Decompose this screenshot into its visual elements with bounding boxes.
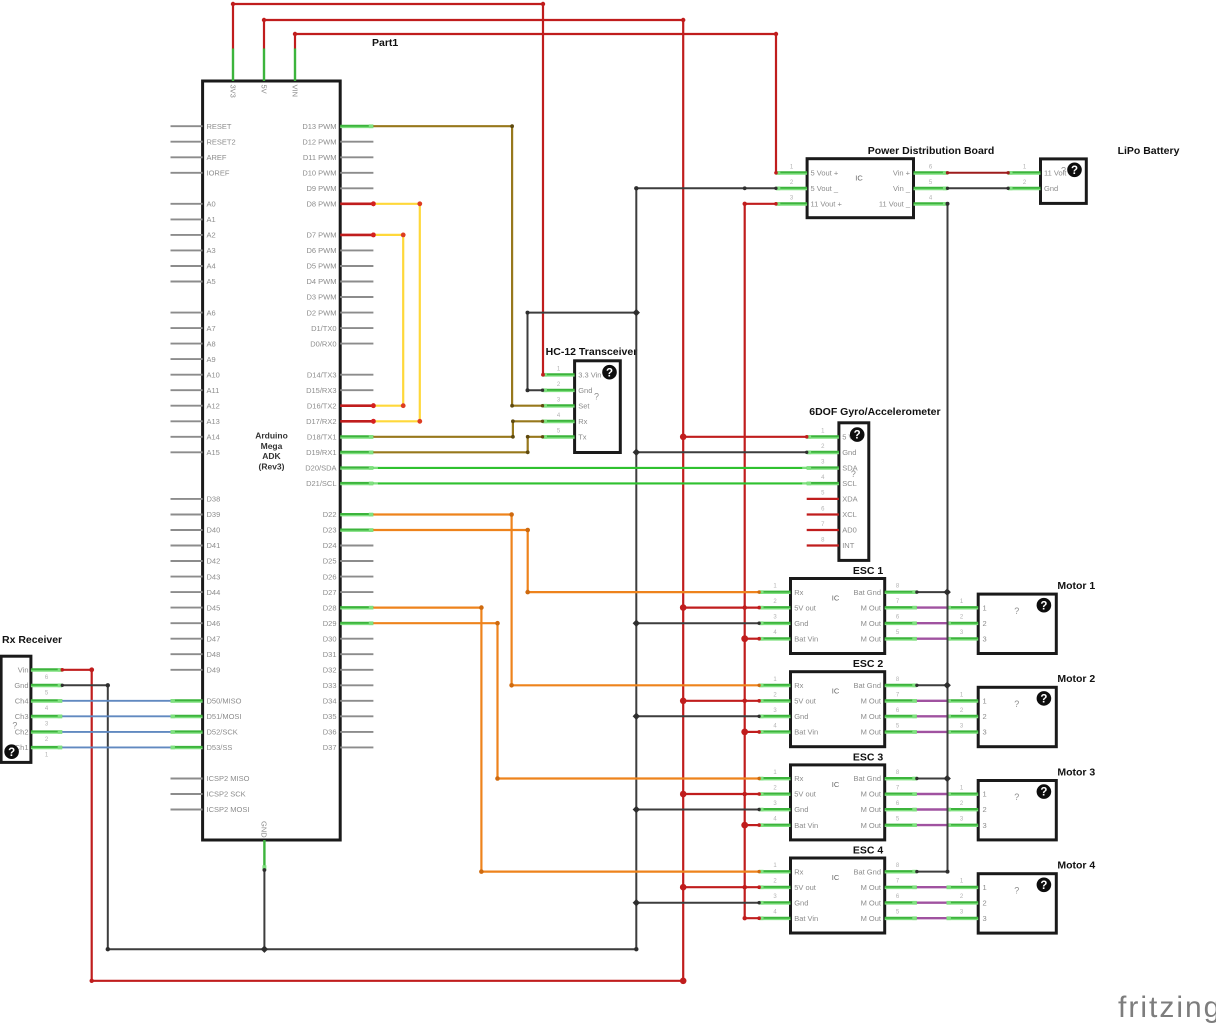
svg-text:5V out: 5V out bbox=[794, 790, 817, 799]
svg-text:D36: D36 bbox=[323, 728, 337, 737]
svg-text:D45: D45 bbox=[207, 603, 221, 612]
svg-text:D44: D44 bbox=[207, 588, 221, 597]
svg-text:A12: A12 bbox=[207, 401, 220, 410]
junction: ground net junction dots bbox=[61, 186, 809, 953]
svg-text:?: ? bbox=[594, 391, 599, 401]
svg-text:?: ? bbox=[1061, 166, 1066, 176]
svg-text:D24: D24 bbox=[323, 541, 337, 550]
svg-text:ESC 4: ESC 4 bbox=[853, 845, 884, 857]
wire: PDB Vin- to LiPo Gnd (black) bbox=[946, 187, 1010, 190]
svg-text:Bat Vin: Bat Vin bbox=[794, 634, 818, 643]
svg-text:?: ? bbox=[1040, 600, 1047, 612]
svg-text:IC: IC bbox=[832, 780, 840, 789]
U4 unknown-part icon bbox=[850, 427, 865, 442]
svg-text:?: ? bbox=[1014, 885, 1019, 895]
svg-text:M Out: M Out bbox=[861, 603, 882, 612]
svg-text:D27: D27 bbox=[323, 588, 337, 597]
svg-text:IC: IC bbox=[832, 593, 840, 602]
svg-text:D42: D42 bbox=[207, 557, 221, 566]
svg-text:ESC 2: ESC 2 bbox=[853, 658, 884, 670]
svg-text:D49: D49 bbox=[207, 666, 221, 675]
svg-text:ICSP2 MISO: ICSP2 MISO bbox=[207, 774, 250, 783]
wire: D7 to D16/TX2 (yellow) bbox=[371, 233, 406, 409]
BT1 unknown-part icon bbox=[1067, 163, 1082, 178]
svg-text:5V out: 5V out bbox=[794, 603, 817, 612]
svg-text:M Out: M Out bbox=[861, 914, 882, 923]
svg-text:A7: A7 bbox=[207, 324, 216, 333]
wire: PDB 11Vout+ to ESC Bat Vin rail (red) bbox=[743, 202, 778, 921]
wire: D13 to HC-12 Set (dark yellow) bbox=[373, 124, 544, 407]
svg-text:RESET: RESET bbox=[207, 122, 232, 131]
svg-text:Bat Vin: Bat Vin bbox=[794, 914, 818, 923]
svg-text:Motor 1: Motor 1 bbox=[1057, 580, 1095, 592]
svg-text:IC: IC bbox=[832, 687, 840, 696]
svg-text:D47: D47 bbox=[207, 634, 221, 643]
svg-text:?: ? bbox=[851, 469, 856, 479]
svg-text:D34: D34 bbox=[323, 697, 337, 706]
svg-text:1: 1 bbox=[983, 790, 987, 799]
svg-text:?: ? bbox=[8, 747, 15, 759]
M4: Motor 4 body bbox=[947, 860, 1096, 934]
svg-text:Rx: Rx bbox=[794, 774, 803, 783]
svg-text:Bat Vin: Bat Vin bbox=[794, 728, 818, 737]
U1 top power pins 3V3 5V VIN (green legs) bbox=[228, 49, 299, 98]
svg-text:D9 PWM: D9 PWM bbox=[307, 184, 337, 193]
svg-text:Gnd: Gnd bbox=[842, 448, 856, 457]
svg-text:A9: A9 bbox=[207, 355, 216, 364]
svg-text:A10: A10 bbox=[207, 370, 220, 379]
svg-text:ICSP2 SCK: ICSP2 SCK bbox=[207, 790, 246, 799]
svg-text:D0/RX0: D0/RX0 bbox=[310, 339, 336, 348]
svg-text:D6 PWM: D6 PWM bbox=[307, 246, 337, 255]
svg-text:D2 PWM: D2 PWM bbox=[307, 308, 337, 317]
svg-text:A3: A3 bbox=[207, 246, 216, 255]
svg-text:11 Vout _: 11 Vout _ bbox=[879, 200, 911, 209]
svg-text:Set: Set bbox=[578, 401, 590, 410]
U1 right pin stubs and labels (D13..D37) bbox=[302, 122, 375, 752]
svg-text:Power Distribution Board: Power Distribution Board bbox=[868, 145, 995, 157]
svg-text:M Out: M Out bbox=[861, 805, 882, 814]
svg-text:D12 PWM: D12 PWM bbox=[302, 137, 336, 146]
svg-text:IOREF: IOREF bbox=[207, 169, 230, 178]
svg-text:ESC 3: ESC 3 bbox=[853, 751, 884, 763]
svg-text:3: 3 bbox=[983, 821, 987, 830]
svg-text:Arduino: Arduino bbox=[255, 431, 288, 441]
svg-text:D5 PWM: D5 PWM bbox=[307, 262, 337, 271]
M4 unknown-part icon bbox=[1037, 878, 1052, 893]
svg-text:D28: D28 bbox=[323, 603, 337, 612]
wire: PDB 11Vout- to ESC Bat Gnd rail (dark grey) bbox=[917, 202, 950, 874]
svg-text:M Out: M Out bbox=[861, 790, 882, 799]
svg-text:ESC 1: ESC 1 bbox=[853, 565, 884, 577]
svg-text:?: ? bbox=[1014, 792, 1019, 802]
svg-text:A5: A5 bbox=[207, 277, 216, 286]
svg-text:2: 2 bbox=[983, 805, 987, 814]
svg-text:XCL: XCL bbox=[842, 510, 857, 519]
svg-text:AREF: AREF bbox=[207, 153, 227, 162]
svg-text:D53/SS: D53/SS bbox=[207, 743, 233, 752]
svg-text:Gnd: Gnd bbox=[794, 898, 808, 907]
svg-text:?: ? bbox=[854, 430, 861, 442]
svg-text:D51/MOSI: D51/MOSI bbox=[207, 712, 242, 721]
svg-text:2: 2 bbox=[983, 619, 987, 628]
svg-text:HC-12 Transceiver: HC-12 Transceiver bbox=[546, 346, 638, 358]
wire: D8 to D17/RX2 (yellow) bbox=[371, 201, 422, 423]
IC U7: ESC 3 body bbox=[759, 751, 917, 840]
svg-text:M Out: M Out bbox=[861, 898, 882, 907]
svg-text:D25: D25 bbox=[323, 557, 337, 566]
svg-text:D22: D22 bbox=[323, 510, 337, 519]
svg-text:Vin +: Vin + bbox=[893, 169, 911, 178]
wire: D21/SCL to 6DOF SCL (green) bbox=[373, 482, 806, 484]
svg-text:M Out: M Out bbox=[861, 728, 882, 737]
svg-text:5V: 5V bbox=[259, 85, 268, 94]
svg-text:M Out: M Out bbox=[861, 712, 882, 721]
svg-text:A6: A6 bbox=[207, 308, 216, 317]
svg-text:1: 1 bbox=[983, 603, 987, 612]
svg-text:A2: A2 bbox=[207, 231, 216, 240]
svg-text:D48: D48 bbox=[207, 650, 221, 659]
svg-text:3.3 Vin: 3.3 Vin bbox=[578, 370, 601, 379]
svg-text:D31: D31 bbox=[323, 650, 337, 659]
M1: Motor 1 body bbox=[947, 580, 1096, 654]
svg-text:M Out: M Out bbox=[861, 821, 882, 830]
svg-text:?: ? bbox=[12, 721, 17, 731]
M3 unknown-part icon bbox=[1037, 784, 1052, 799]
svg-text:D29: D29 bbox=[323, 619, 337, 628]
svg-text:?: ? bbox=[1040, 880, 1047, 892]
svg-text:GND: GND bbox=[260, 821, 269, 838]
U1 left pin stubs and labels (RESET..ICSP2 MOSI) bbox=[171, 122, 250, 814]
svg-text:?: ? bbox=[1014, 606, 1019, 616]
svg-text:Motor 2: Motor 2 bbox=[1057, 673, 1095, 685]
svg-text:D52/SCK: D52/SCK bbox=[207, 728, 238, 737]
svg-text:D30: D30 bbox=[323, 634, 337, 643]
svg-text:Gnd: Gnd bbox=[578, 386, 592, 395]
svg-text:Gnd: Gnd bbox=[1044, 184, 1058, 193]
svg-text:D23: D23 bbox=[323, 526, 337, 535]
svg-text:Bat Gnd: Bat Gnd bbox=[853, 588, 881, 597]
svg-text:D17/RX2: D17/RX2 bbox=[306, 417, 336, 426]
svg-text:D33: D33 bbox=[323, 681, 337, 690]
wire: Rx receiver Ch4-Ch1 to D50-D53 (blue) bbox=[62, 701, 170, 748]
U9 unknown-part icon bbox=[4, 744, 19, 759]
svg-text:Vin _: Vin _ bbox=[893, 184, 911, 193]
svg-text:A8: A8 bbox=[207, 339, 216, 348]
svg-text:D50/MISO: D50/MISO bbox=[207, 697, 242, 706]
svg-text:Gnd: Gnd bbox=[794, 712, 808, 721]
svg-text:Rx: Rx bbox=[794, 588, 803, 597]
wire: D20/SDA to 6DOF SDA (green) bbox=[373, 467, 806, 469]
svg-text:D1/TX0: D1/TX0 bbox=[311, 324, 336, 333]
svg-text:2: 2 bbox=[983, 898, 987, 907]
svg-text:IC: IC bbox=[832, 873, 840, 882]
svg-text:D26: D26 bbox=[323, 572, 337, 581]
wire: PDB Vin+ to LiPo 11Volt (dark red) bbox=[946, 171, 1010, 174]
svg-text:A14: A14 bbox=[207, 433, 220, 442]
svg-text:3: 3 bbox=[983, 914, 987, 923]
svg-text:Vin: Vin bbox=[18, 666, 29, 675]
svg-text:RESET2: RESET2 bbox=[207, 137, 236, 146]
junction: 11V rail junction dots bbox=[741, 635, 761, 920]
svg-text:M Out: M Out bbox=[861, 619, 882, 628]
svg-text:SCL: SCL bbox=[842, 479, 857, 488]
M2: Motor 2 body bbox=[947, 673, 1096, 747]
svg-text:5 Vout +: 5 Vout + bbox=[811, 169, 839, 178]
svg-text:M Out: M Out bbox=[861, 634, 882, 643]
svg-text:D19/RX1: D19/RX1 bbox=[306, 448, 336, 457]
svg-text:Gnd: Gnd bbox=[794, 805, 808, 814]
svg-text:Bat Vin: Bat Vin bbox=[794, 821, 818, 830]
svg-text:XDA: XDA bbox=[842, 495, 857, 504]
svg-text:D32: D32 bbox=[323, 666, 337, 675]
svg-text:Bat Gnd: Bat Gnd bbox=[853, 681, 881, 690]
svg-text:ICSP2 MOSI: ICSP2 MOSI bbox=[207, 805, 250, 814]
svg-text:D43: D43 bbox=[207, 572, 221, 581]
svg-text:A11: A11 bbox=[207, 386, 220, 395]
wire: ESC M Out to Motor pins (purple) bbox=[917, 608, 947, 919]
svg-text:A15: A15 bbox=[207, 448, 220, 457]
svg-text:3V3: 3V3 bbox=[228, 85, 237, 98]
svg-text:(Rev3): (Rev3) bbox=[259, 462, 285, 472]
svg-text:D21/SCL: D21/SCL bbox=[306, 479, 336, 488]
M1 unknown-part icon bbox=[1037, 598, 1052, 613]
svg-text:D39: D39 bbox=[207, 510, 221, 519]
svg-text:A1: A1 bbox=[207, 215, 216, 224]
svg-text:5V out: 5V out bbox=[794, 697, 817, 706]
svg-text:D41: D41 bbox=[207, 541, 221, 550]
svg-text:D35: D35 bbox=[323, 712, 337, 721]
U2 unknown-part icon bbox=[602, 365, 617, 380]
svg-text:6DOF Gyro/Accelerometer: 6DOF Gyro/Accelerometer bbox=[809, 406, 940, 418]
wire: D22 to ESC2 Rx (orange) bbox=[373, 512, 760, 687]
M3: Motor 3 body bbox=[947, 766, 1096, 840]
svg-text:D16/TX2: D16/TX2 bbox=[307, 401, 337, 410]
svg-text:D46: D46 bbox=[207, 619, 221, 628]
M2 unknown-part icon bbox=[1037, 691, 1052, 706]
svg-text:fritzing: fritzing bbox=[1118, 991, 1216, 1024]
wire: HC-12 Tx to D19/RX1 (dark yellow) bbox=[373, 435, 544, 454]
wire: PDB 5Vout+ to Arduino VIN (red) bbox=[293, 32, 778, 175]
svg-text:?: ? bbox=[1014, 699, 1019, 709]
svg-text:Rx: Rx bbox=[794, 867, 803, 876]
svg-text:D10 PWM: D10 PWM bbox=[302, 169, 336, 178]
svg-text:Mega: Mega bbox=[261, 441, 283, 451]
svg-text:A0: A0 bbox=[207, 200, 216, 209]
svg-text:2: 2 bbox=[983, 712, 987, 721]
IC U2: HC-12 Transceiver body bbox=[543, 346, 638, 453]
svg-text:M Out: M Out bbox=[861, 883, 882, 892]
svg-text:Rx: Rx bbox=[794, 681, 803, 690]
svg-text:D4 PWM: D4 PWM bbox=[307, 277, 337, 286]
svg-text:LiPo Battery: LiPo Battery bbox=[1118, 145, 1180, 157]
wire: 5V rail net (red) - Arduino 5V, 6DOF 5Vin, ESC 5V outs, Rx receiver Vin bbox=[61, 18, 807, 983]
svg-text:Bat Gnd: Bat Gnd bbox=[853, 867, 881, 876]
svg-text:Tx: Tx bbox=[578, 433, 587, 442]
svg-text:D8 PWM: D8 PWM bbox=[307, 200, 337, 209]
svg-text:D20/SDA: D20/SDA bbox=[305, 464, 336, 473]
wire: ground net (black) - PDB 5Vout-, HC-12 Gnd, 6DOF Gnd, ESC Gnds, Arduino GND, Rx receiver Gnd bbox=[62, 188, 806, 949]
wire: 3V3 to HC-12 3.3Vin (red) bbox=[231, 2, 545, 377]
svg-text:IC: IC bbox=[855, 174, 863, 183]
svg-text:A4: A4 bbox=[207, 262, 216, 271]
svg-text:D13 PWM: D13 PWM bbox=[302, 122, 336, 131]
svg-text:Motor 3: Motor 3 bbox=[1057, 766, 1095, 778]
svg-text:Motor 4: Motor 4 bbox=[1057, 860, 1095, 872]
IC U1: Arduino Mega ADK (Rev3) body bbox=[203, 81, 341, 840]
svg-text:3: 3 bbox=[983, 634, 987, 643]
svg-text:M Out: M Out bbox=[861, 697, 882, 706]
U9: Rx Receiver body bbox=[1, 634, 62, 762]
svg-text:5V out: 5V out bbox=[794, 883, 817, 892]
IC U8: ESC 4 body bbox=[759, 845, 917, 934]
wire: D28 to ESC4 Rx (orange) bbox=[373, 605, 760, 874]
wire: D18/TX1 to HC-12 Rx (dark yellow) bbox=[373, 419, 544, 438]
svg-text:1: 1 bbox=[983, 697, 987, 706]
wire: D29 to ESC3 Rx (orange) bbox=[373, 621, 760, 781]
svg-text:Bat Gnd: Bat Gnd bbox=[853, 774, 881, 783]
svg-text:Part1: Part1 bbox=[372, 37, 398, 49]
svg-text:?: ? bbox=[1040, 694, 1047, 706]
IC U3: Power Distribution Board body bbox=[776, 145, 994, 218]
svg-text:D40: D40 bbox=[207, 526, 221, 535]
svg-text:3: 3 bbox=[983, 728, 987, 737]
svg-text:Gnd: Gnd bbox=[14, 681, 28, 690]
U1 bottom GND pin (green leg) bbox=[260, 821, 269, 870]
svg-text:INT: INT bbox=[842, 541, 855, 550]
svg-text:VIN: VIN bbox=[290, 85, 299, 98]
IC U6: ESC 2 body bbox=[759, 658, 917, 747]
svg-text:?: ? bbox=[606, 367, 613, 379]
svg-text:D7 PWM: D7 PWM bbox=[307, 231, 337, 240]
svg-text:D11 PWM: D11 PWM bbox=[303, 153, 337, 162]
junction: 5V rail junction dots bbox=[680, 434, 809, 985]
IC U4: 6DOF Gyro/Accelerometer body bbox=[807, 406, 941, 560]
svg-text:D3 PWM: D3 PWM bbox=[307, 293, 337, 302]
svg-text:Gnd: Gnd bbox=[794, 619, 808, 628]
svg-text:AD0: AD0 bbox=[842, 526, 857, 535]
junction: Bat Gnd rail junction dots bbox=[915, 588, 951, 873]
svg-text:?: ? bbox=[1040, 787, 1047, 799]
svg-text:D38: D38 bbox=[207, 495, 221, 504]
svg-text:D15/RX3: D15/RX3 bbox=[306, 386, 336, 395]
svg-text:5 Vout _: 5 Vout _ bbox=[811, 184, 839, 193]
svg-text:?: ? bbox=[1071, 165, 1078, 177]
svg-text:D37: D37 bbox=[323, 743, 337, 752]
svg-text:1: 1 bbox=[983, 883, 987, 892]
svg-text:D18/TX1: D18/TX1 bbox=[307, 433, 337, 442]
svg-text:Ch4: Ch4 bbox=[15, 697, 29, 706]
svg-text:Rx Receiver: Rx Receiver bbox=[2, 634, 62, 646]
IC U5: ESC 1 body bbox=[759, 565, 917, 654]
svg-text:Rx: Rx bbox=[578, 417, 587, 426]
svg-text:A13: A13 bbox=[207, 417, 220, 426]
svg-text:ADK: ADK bbox=[262, 451, 281, 461]
svg-text:11 Vout +: 11 Vout + bbox=[811, 200, 843, 209]
wire: D23 to ESC1 Rx (orange) bbox=[373, 528, 760, 595]
BT1: LiPo Battery body bbox=[1008, 145, 1179, 203]
svg-text:D14/TX3: D14/TX3 bbox=[307, 370, 337, 379]
